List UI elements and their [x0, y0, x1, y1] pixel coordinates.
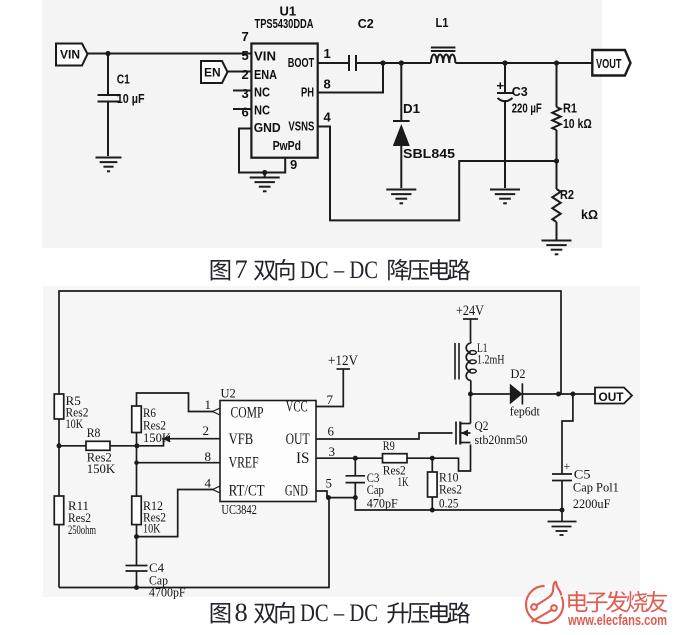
- svg-text:+: +: [497, 78, 505, 93]
- svg-text:8: 8: [235, 597, 248, 627]
- pin numbers U1 right: 1,8,4: [324, 46, 332, 125]
- pin stub NC pin 2: [233, 90, 251, 92]
- svg-text:OUT: OUT: [599, 390, 625, 404]
- svg-text:5: 5: [326, 476, 333, 491]
- resistor R6 Res2 150K: [132, 405, 172, 446]
- pin stub NC pin 3: [233, 108, 251, 110]
- resistor R1 10k: [552, 63, 591, 161]
- svg-text:C3: C3: [512, 84, 528, 99]
- svg-text:7: 7: [242, 29, 249, 44]
- svg-text:ENA: ENA: [254, 67, 278, 82]
- wire L1 to VOUT: [455, 62, 592, 64]
- wire OUT node down to C5: [562, 394, 573, 470]
- node C3 junction: [502, 60, 507, 65]
- svg-text:SBL845: SBL845: [403, 146, 455, 161]
- svg-text:PwPd: PwPd: [273, 138, 301, 153]
- svg-text:+24V: +24V: [456, 303, 484, 319]
- svg-text:VIN: VIN: [254, 49, 276, 64]
- svg-text:5: 5: [242, 48, 249, 63]
- port VOUT: [592, 50, 630, 76]
- svg-text:www.elecfans.com: www.elecfans.com: [567, 612, 667, 629]
- resistor R9 Res2 1K: [383, 438, 433, 489]
- svg-text:10K: 10K: [66, 416, 84, 431]
- wire BOOT pin1 to C2: [318, 62, 349, 64]
- svg-text:VREF: VREF: [229, 455, 259, 472]
- svg-text:IS: IS: [296, 450, 310, 467]
- node R10/ground-rail junction: [430, 508, 435, 513]
- wire bottom rail to GND pin: [59, 498, 329, 588]
- svg-text:10 kΩ: 10 kΩ: [563, 117, 592, 131]
- svg-text:BOOT: BOOT: [288, 55, 315, 70]
- capacitor C5 Cap Pol1 2200uF: [552, 459, 619, 511]
- port VIN: [56, 44, 88, 66]
- svg-text:PH: PH: [301, 85, 314, 100]
- svg-text:GND: GND: [254, 120, 281, 135]
- node U1 ground junction: [262, 170, 267, 175]
- ground (C1): [96, 158, 122, 172]
- ground (C5, fig 8): [548, 510, 577, 535]
- wire VFB pin 2 with arrowhead: [137, 435, 220, 446]
- wire ground rail right: [355, 498, 562, 510]
- watermark: elecfans logo: [526, 581, 563, 623]
- ground (U1 PwPd): [250, 173, 280, 192]
- wire U1 GND pin6 and PwPd pin 9 to ground: [239, 129, 297, 173]
- svg-text:R9: R9: [383, 438, 395, 453]
- svg-text:RT/CT: RT/CT: [229, 483, 265, 500]
- svg-text:TPS5430DDA: TPS5430DDA: [255, 16, 314, 31]
- pin numbers U2 right: 7,6,3,5: [326, 392, 336, 491]
- resistor R12 Res2 10K: [132, 496, 166, 536]
- caption: figure 7 title: [211, 254, 470, 284]
- capacitor C2: [349, 16, 374, 71]
- svg-text:R1: R1: [563, 101, 577, 116]
- caption: figure 8 title: [211, 597, 470, 627]
- node L1/Q2/D2 junction: [468, 392, 473, 397]
- svg-text:4: 4: [205, 476, 212, 491]
- svg-text:7: 7: [327, 392, 334, 407]
- op-amp/regulator IC U1 TPS5430DDA: [251, 4, 317, 158]
- resistor R8 Res2 150K: [59, 425, 137, 476]
- node switch/D1 junction: [399, 60, 404, 65]
- svg-text:2200uF: 2200uF: [573, 496, 611, 511]
- node VREF column junction: [134, 461, 138, 465]
- svg-text:6: 6: [328, 424, 335, 439]
- wire R6 top to COMP pin 1: [137, 393, 221, 415]
- wire VREF pin 8 to R6/R12 column: [137, 462, 221, 464]
- node R12/C4 junction: [134, 534, 139, 539]
- wire output feedback loop (top and left sides): [59, 291, 561, 394]
- diode D1 SBL845: [393, 63, 455, 188]
- node R1 junction: [554, 60, 559, 65]
- wire OUT pin 6 to Q2 gate: [316, 433, 453, 439]
- svg-text:8: 8: [205, 449, 212, 464]
- wire VSNS pin4 feedback net: [318, 127, 557, 221]
- wire GND junction to C3 bottom: [327, 497, 355, 499]
- node OUT/loop junction: [556, 392, 561, 397]
- wire RT/CT pin 4 net: [137, 486, 221, 536]
- resistor R10 Res2 0.25: [428, 458, 462, 510]
- wire EN to ENA pin: [228, 71, 252, 73]
- svg-text:+12V: +12V: [328, 353, 358, 369]
- diode D2 fep6dt: [471, 366, 596, 419]
- svg-text:DC – DC: DC – DC: [300, 600, 378, 627]
- ground (R2): [542, 241, 572, 255]
- svg-text:kΩ: kΩ: [581, 208, 598, 222]
- svg-text:NC: NC: [254, 103, 271, 118]
- wire PH pin8 jog: [318, 63, 383, 93]
- wire R10 node to Q2 source: [432, 445, 470, 472]
- wire C2 to switch node: [356, 62, 431, 64]
- svg-text:1.2mH: 1.2mH: [477, 352, 505, 367]
- wire VREF column down: [136, 446, 138, 496]
- capacitor C3 220uF (fig 7): [497, 63, 542, 188]
- svg-text:EN: EN: [204, 66, 221, 80]
- port OUT: [595, 388, 632, 405]
- node R5/R8 junction: [57, 443, 62, 448]
- svg-text:L1: L1: [436, 15, 449, 30]
- svg-text:R8: R8: [87, 425, 101, 440]
- svg-text:VOUT: VOUT: [596, 56, 622, 71]
- svg-text:VCC: VCC: [286, 398, 308, 415]
- svg-text:2: 2: [203, 423, 210, 438]
- svg-text:UC3842: UC3842: [221, 503, 257, 518]
- resistor R5 Res2 10K: [54, 393, 88, 446]
- svg-text:DC – DC: DC – DC: [300, 257, 378, 284]
- wire IS pin 3 net: [316, 457, 355, 459]
- wire VIN net: [88, 53, 252, 55]
- wire C3 node to R9: [355, 457, 382, 459]
- inductor L1 (fig 7): [431, 15, 456, 63]
- pin numbers U1 left: 7,5,2,3,6: [242, 29, 249, 120]
- svg-text:9: 9: [290, 157, 297, 172]
- ground (C3 fig 7): [490, 190, 520, 204]
- svg-text:8: 8: [324, 76, 331, 91]
- svg-text:Cap Pol1: Cap Pol1: [573, 480, 619, 495]
- svg-text:1: 1: [324, 46, 331, 61]
- svg-text:0.25: 0.25: [439, 496, 459, 511]
- svg-text:1: 1: [205, 397, 212, 412]
- svg-text:COMP: COMP: [231, 405, 264, 422]
- capacitor C4 Cap 4700pF: [126, 537, 186, 600]
- svg-text:VFB: VFB: [229, 431, 254, 448]
- svg-text:7: 7: [235, 254, 248, 284]
- wire GND pin 5 net: [316, 491, 327, 498]
- svg-text:4700pF: 4700pF: [149, 585, 186, 600]
- svg-text:C1: C1: [117, 72, 130, 87]
- power +24V: [456, 303, 484, 342]
- capacitor C3 Cap 470pF (fig 8): [346, 458, 398, 510]
- svg-text:3: 3: [242, 86, 249, 101]
- svg-text:10 µF: 10 µF: [117, 92, 145, 106]
- svg-text:OUT: OUT: [286, 431, 310, 448]
- svg-text:470pF: 470pF: [367, 496, 398, 511]
- node R9/R10/source junction: [430, 456, 435, 461]
- svg-text:6: 6: [242, 105, 249, 120]
- svg-text:Res2: Res2: [439, 482, 462, 497]
- port EN: [201, 61, 228, 83]
- svg-text:R2: R2: [560, 187, 574, 202]
- svg-text:GND: GND: [285, 483, 308, 500]
- svg-text:+: +: [564, 459, 571, 473]
- node C4/bottom-rail junction: [134, 585, 139, 590]
- svg-text:2: 2: [242, 67, 249, 82]
- svg-text:250ohm: 250ohm: [68, 522, 96, 537]
- node C5/ground junction: [560, 508, 565, 513]
- IC U2 UC3842: [220, 387, 316, 519]
- power +12V: [328, 353, 358, 369]
- node VIN/C1 junction: [105, 51, 110, 56]
- node IS/C3 junction: [353, 456, 358, 461]
- svg-text:C2: C2: [358, 16, 374, 31]
- node BOOT/PH junction: [380, 60, 385, 65]
- svg-text:U2: U2: [221, 387, 236, 401]
- svg-text:Q2: Q2: [475, 418, 489, 433]
- node C3 bottom junction: [353, 495, 358, 500]
- svg-text:3: 3: [329, 444, 336, 459]
- ground (D1): [386, 190, 416, 204]
- node OUT/C5 junction: [570, 392, 575, 397]
- svg-text:220 µF: 220 µF: [512, 102, 542, 116]
- resistor R2: [552, 161, 598, 240]
- watermark: elecfans text: [567, 591, 667, 629]
- svg-text:stb20nm50: stb20nm50: [475, 432, 528, 447]
- svg-text:10K: 10K: [143, 521, 161, 536]
- svg-text:4: 4: [324, 110, 332, 125]
- svg-text:1K: 1K: [398, 474, 409, 489]
- transistor Q2 stb20nm50 MOSFET: [456, 394, 528, 447]
- svg-text:D1: D1: [403, 101, 420, 116]
- capacitor C1 10uF: [98, 54, 145, 157]
- inductor L1 1.2mH (fig 8): [455, 340, 505, 394]
- wire VCC pin 7 to +12V: [316, 369, 343, 407]
- svg-text:VSNS: VSNS: [288, 119, 314, 134]
- svg-text:VIN: VIN: [60, 48, 80, 62]
- node R6/R8/VFB junction: [134, 443, 139, 448]
- svg-text:fep6dt: fep6dt: [510, 404, 540, 419]
- svg-text:150K: 150K: [87, 461, 116, 476]
- svg-text:D2: D2: [511, 366, 526, 381]
- node R1/R2 feedback junction: [554, 158, 559, 163]
- pin numbers U2 left: 1,2,8,4: [203, 397, 212, 491]
- resistor R11 Res2 250ohm: [54, 446, 96, 588]
- svg-text:NC: NC: [254, 85, 271, 100]
- node GND pin5 junction: [326, 495, 331, 500]
